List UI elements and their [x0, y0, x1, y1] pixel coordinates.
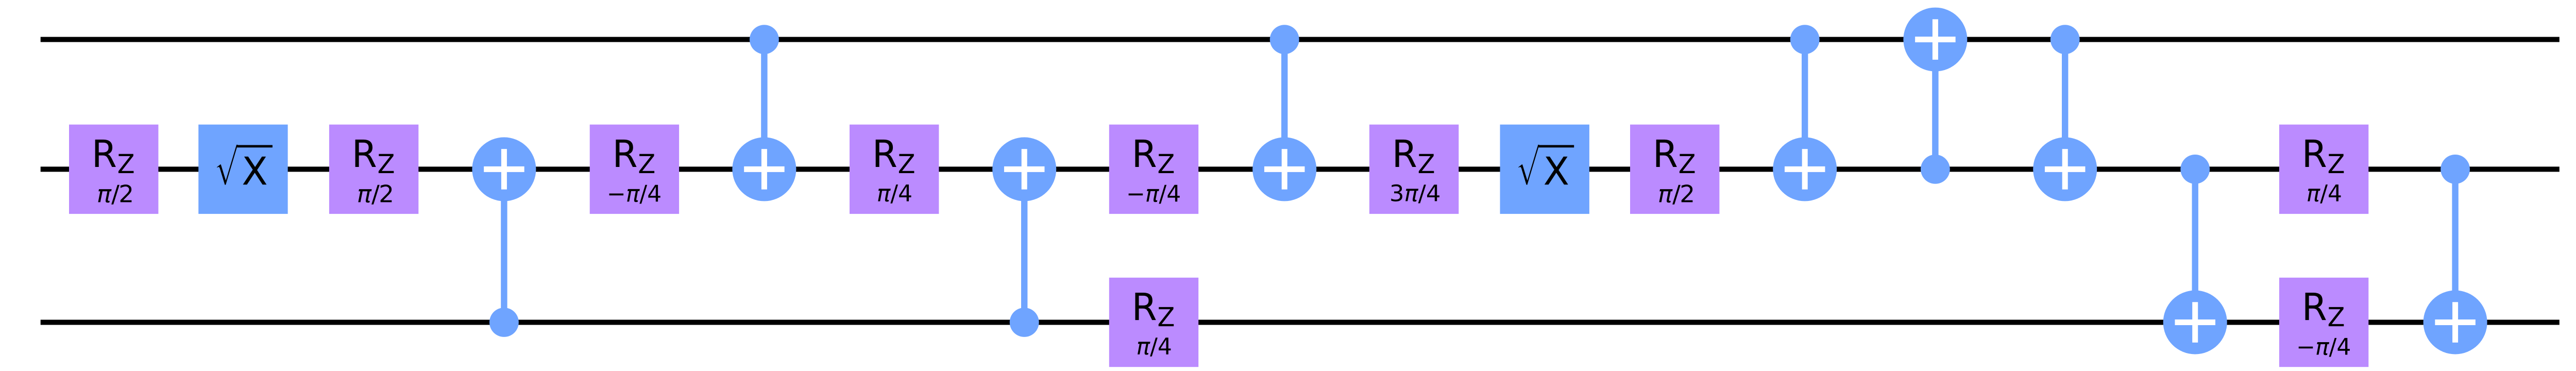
- gate RZ(π/2) on q1 at column 13: [1630, 125, 1719, 214]
- CNOT #3 target ⊕: [992, 137, 1056, 201]
- CNOT #6 target ⊕: [1903, 8, 1967, 72]
- gate RZ(−π/4) on q1 at column 5: [590, 125, 679, 214]
- CNOT #7 control dot: [2050, 25, 2080, 54]
- gate √X on q1 at column 2: [198, 125, 287, 214]
- CNOT #7 vertical connector wire: [2062, 40, 2068, 170]
- gate RZ(−π/4) on q2 at column 18: [2279, 278, 2368, 367]
- CNOT #6 vertical connector wire: [1932, 40, 1938, 170]
- CNOT #1 vertical connector wire: [501, 169, 507, 322]
- gate RZ(3π/4) on q1 at column 11: [1369, 125, 1459, 214]
- CNOT #7 target ⊕: [2033, 137, 2097, 201]
- CNOT #5 vertical connector wire: [1802, 40, 1808, 170]
- CNOT #2 control dot: [750, 25, 779, 54]
- wire qubit q0 (top): [41, 37, 2560, 42]
- CNOT #4 target ⊕: [1252, 137, 1316, 201]
- CNOT #1 target ⊕: [472, 137, 536, 201]
- CNOT #4 control dot: [1270, 25, 1299, 54]
- CNOT #8 target ⊕: [2163, 291, 2227, 355]
- CNOT #3 control dot: [1010, 308, 1039, 337]
- gate RZ(π/4) on q1 at column 18: [2279, 125, 2368, 214]
- gate RZ(π/4) on q1 at column 7: [850, 125, 939, 214]
- CNOT #5 control dot: [1790, 25, 1820, 54]
- CNOT #2 target ⊕: [732, 137, 796, 201]
- gate RZ(π/2) on q1 at column 1: [69, 125, 158, 214]
- gate RZ(−π/4) on q1 at column 9: [1109, 125, 1198, 214]
- CNOT #2 vertical connector wire: [761, 40, 767, 170]
- CNOT #3 vertical connector wire: [1021, 169, 1027, 322]
- CNOT #9 target ⊕: [2424, 291, 2487, 355]
- gate RZ(π/4) on q2 at column 9: [1109, 278, 1198, 367]
- CNOT #4 vertical connector wire: [1281, 40, 1287, 170]
- gate RZ(π/2) on q1 at column 3: [329, 125, 418, 214]
- CNOT #8 control dot: [2180, 155, 2210, 184]
- CNOT #1 control dot: [489, 308, 519, 337]
- CNOT #6 control dot: [1921, 155, 1950, 184]
- CNOT #9 control dot: [2441, 155, 2470, 184]
- CNOT #9 vertical connector wire: [2452, 169, 2458, 322]
- CNOT #8 vertical connector wire: [2192, 169, 2198, 322]
- gate √X on q1 at column 12: [1500, 125, 1589, 214]
- CNOT #5 target ⊕: [1773, 137, 1837, 201]
- wire qubit q2 (bottom): [41, 320, 2560, 325]
- wire qubit q1 (middle): [41, 166, 2560, 172]
